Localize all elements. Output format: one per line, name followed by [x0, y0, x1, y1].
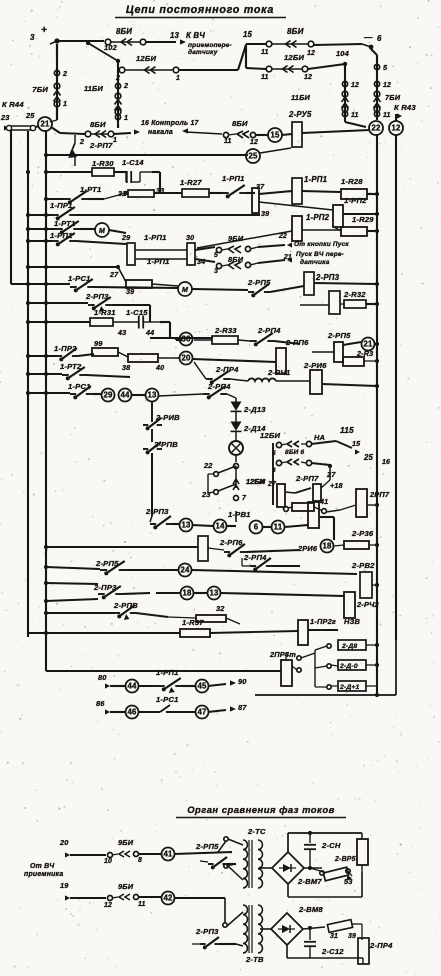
wire — [223, 898, 243, 946]
node 45 circled — [196, 680, 209, 693]
relay coil 2-RP5 right — [312, 331, 351, 362]
wire — [314, 282, 379, 286]
svg-text:8БИ: 8БИ — [228, 255, 244, 264]
switch bar 32 — [168, 615, 240, 624]
fuse 9BI b1 — [104, 838, 142, 865]
wire left bus x46 — [45, 131, 47, 671]
circle 5 on x377 — [374, 64, 388, 72]
resistor slanted 2-VR5 — [310, 856, 356, 881]
svg-text:1-РП2: 1-РП2 — [344, 196, 367, 205]
wire — [160, 322, 170, 338]
contact 1-RP1 low — [50, 231, 126, 246]
terminal 86 — [96, 699, 126, 715]
wire — [109, 230, 126, 233]
svg-text:1: 1 — [176, 75, 180, 82]
fuse 8BI mid — [214, 255, 258, 275]
node 13b circled — [208, 587, 221, 600]
contact 2-RP6 low — [208, 538, 300, 557]
node 32 — [216, 604, 225, 613]
svg-text:13: 13 — [147, 391, 157, 400]
svg-text:2-С12: 2-С12 — [321, 947, 344, 956]
contact 2-RP7 low — [285, 466, 330, 493]
capacitor 1-C14 — [114, 158, 152, 183]
wire — [126, 570, 357, 574]
svg-text:29: 29 — [121, 234, 130, 242]
fuse 12BI vert mid — [233, 464, 266, 503]
svg-text:44: 44 — [145, 329, 154, 337]
svg-text:2-ПР4: 2-ПР4 — [369, 941, 393, 950]
wire bridge1 right — [304, 867, 322, 869]
label 12BI — [260, 431, 280, 440]
terminal bar — [6, 125, 35, 130]
relay coil 2-R32coil — [300, 291, 340, 314]
svg-text:41: 41 — [163, 850, 173, 859]
svg-text:23: 23 — [201, 490, 211, 499]
node 22 circled — [369, 121, 383, 135]
wire vertical x118 — [117, 61, 119, 128]
resistor 2-R33 — [194, 326, 238, 344]
label K R43 — [394, 103, 416, 119]
wire — [156, 593, 344, 596]
wire — [50, 107, 57, 122]
wire bus y241 — [26, 239, 52, 243]
svg-text:39: 39 — [348, 933, 356, 940]
relay coil 2RP6r — [297, 502, 319, 553]
svg-text:25: 25 — [25, 111, 35, 120]
svg-text:2-РЧ2: 2-РЧ2 — [356, 600, 379, 609]
svg-text:1-РП2: 1-РП2 — [306, 213, 330, 222]
svg-text:8БИ: 8БИ — [232, 119, 248, 128]
svg-text:8БИ: 8БИ — [287, 27, 304, 36]
svg-text:2-РП6: 2-РП6 — [219, 538, 243, 547]
svg-text:9БИ: 9БИ — [228, 234, 244, 243]
svg-text:22: 22 — [371, 124, 381, 133]
contact 2-RPV 2 — [143, 440, 178, 522]
node 104 — [336, 49, 349, 66]
wire — [287, 945, 363, 964]
svg-text:25: 25 — [363, 453, 374, 462]
resistor 39 — [118, 267, 178, 296]
svg-text:8БИ: 8БИ — [90, 120, 106, 129]
svg-text:11: 11 — [383, 112, 391, 119]
node 44 circled — [119, 389, 132, 402]
capacitor 1-C15 — [113, 308, 160, 329]
switch bar 29 — [127, 243, 135, 265]
svg-text:5: 5 — [272, 450, 276, 457]
svg-text:2-СН: 2-СН — [321, 841, 341, 850]
svg-text:5: 5 — [383, 64, 388, 72]
svg-text:13: 13 — [181, 521, 191, 530]
relay coil 2RP7 — [356, 489, 390, 517]
svg-text:45: 45 — [197, 682, 207, 691]
wire bus y620 — [44, 611, 114, 615]
svg-text:М: М — [182, 286, 189, 294]
svg-text:18: 18 — [322, 542, 332, 551]
svg-text:87: 87 — [238, 703, 247, 712]
svg-text:2-РЧ1: 2-РЧ1 — [267, 368, 290, 377]
wire — [218, 837, 243, 880]
wire bus y303 — [26, 301, 88, 305]
svg-text:2: 2 — [79, 139, 84, 146]
svg-text:1: 1 — [63, 100, 67, 108]
circle 2 on x57 — [54, 70, 67, 78]
svg-text:2-Д8: 2-Д8 — [341, 643, 357, 650]
wire — [235, 511, 237, 522]
svg-text:13: 13 — [209, 589, 219, 598]
svg-text:11: 11 — [261, 74, 269, 81]
svg-text:12: 12 — [104, 902, 112, 909]
contact 2-RP3 b — [192, 927, 236, 949]
svg-text:7БИ: 7БИ — [32, 85, 48, 94]
wire — [70, 854, 106, 856]
contact 2-RP5 b — [195, 842, 236, 869]
node 29 circled — [102, 389, 115, 402]
svg-text:2-ВМ8: 2-ВМ8 — [298, 905, 323, 914]
svg-text:1-РП1: 1-РП1 — [144, 233, 167, 242]
label 13 K VCh — [170, 31, 232, 56]
inductor 2-RCh1 — [248, 368, 290, 381]
svg-text:18: 18 — [182, 589, 192, 598]
relay coil 1-PR2g — [298, 617, 360, 645]
svg-text:2-R33: 2-R33 — [214, 326, 237, 335]
terminal 15 25 — [336, 440, 390, 466]
wire — [176, 338, 182, 340]
resistor 1-R31 — [90, 308, 116, 326]
svg-text:41: 41 — [319, 498, 328, 506]
wire bus y193 — [154, 192, 182, 194]
contact 1-RT1 upper — [44, 185, 104, 204]
svg-text:2-РП3: 2-РП3 — [315, 273, 340, 282]
fuse row B — [272, 459, 312, 474]
contact 22 — [203, 461, 236, 493]
wire left bus x28 — [27, 131, 29, 637]
svg-text:12: 12 — [351, 82, 359, 89]
transformer 2-TV — [243, 905, 263, 953]
svg-text:К ВЧ: К ВЧ — [186, 31, 205, 40]
wire — [263, 525, 308, 527]
wire — [246, 44, 345, 69]
svg-text:12БИ: 12БИ — [136, 54, 156, 63]
svg-text:1-ПР2г: 1-ПР2г — [310, 617, 336, 626]
switch bar left — [277, 484, 285, 507]
svg-text:1-R37: 1-R37 — [182, 618, 204, 627]
svg-text:44: 44 — [127, 682, 137, 691]
node 18b circled — [181, 587, 194, 600]
wire — [259, 191, 292, 194]
svg-text:приемника: приемника — [24, 871, 63, 878]
wire main row y135 — [51, 127, 85, 134]
svg-text:2-РП4: 2-РП4 — [243, 553, 267, 562]
contact 2-RP4 low — [242, 553, 300, 571]
relay coil small left — [198, 536, 208, 561]
switch box 38-40 — [122, 354, 180, 372]
node 13 circled row — [180, 519, 193, 532]
contact 2-RP5 low — [95, 559, 126, 575]
svg-text:46: 46 — [127, 708, 137, 717]
diode bridge 2-VM7 — [272, 852, 322, 886]
fuse 7BI vertical — [32, 83, 60, 107]
svg-text:12: 12 — [383, 82, 391, 89]
relay box 2-PR4 — [358, 938, 393, 964]
label Ot VCh priemnika — [24, 863, 63, 878]
svg-text:40: 40 — [155, 364, 164, 372]
svg-text:102: 102 — [104, 43, 118, 52]
switch bar 1-RP2 — [259, 196, 367, 227]
svg-text:2-ТВ: 2-ТВ — [245, 955, 264, 964]
svg-text:датчика: датчика — [300, 258, 330, 266]
svg-text:—: — — [363, 32, 373, 42]
terminal 3 + — [30, 25, 60, 44]
contact 2-RPV low — [113, 601, 168, 620]
contact 2-RPV 1 — [143, 401, 180, 442]
wire — [315, 650, 327, 687]
contact 2-PR3 — [93, 583, 150, 599]
node 12 circled — [389, 121, 403, 135]
wire bus y374 — [26, 372, 62, 376]
fuse 8BI row — [79, 120, 117, 146]
terminal 20 — [59, 838, 70, 858]
svg-text:31: 31 — [330, 933, 338, 940]
resistor 1-R30 — [92, 159, 114, 176]
circle 1 on x118 — [115, 114, 128, 122]
contact 2-PR4 upper2 — [194, 362, 248, 384]
svg-text:1-ПР1: 1-ПР1 — [50, 201, 73, 210]
contact 1-PR2 — [54, 344, 94, 361]
svg-text:1-R30: 1-R30 — [92, 159, 114, 168]
node 13 circled — [146, 389, 159, 402]
svg-text:1-РС1: 1-РС1 — [156, 695, 179, 704]
svg-text:приемопере-: приемопере- — [188, 42, 232, 49]
svg-text:1: 1 — [124, 114, 128, 122]
wire — [192, 359, 276, 362]
contact 1-RC1 term — [139, 695, 196, 712]
label K R44 — [2, 100, 24, 109]
contact 1-RT1 lower — [54, 219, 95, 234]
svg-text:11: 11 — [274, 523, 283, 532]
svg-text:7: 7 — [242, 495, 247, 502]
wire right bus x377 — [376, 135, 378, 695]
node 46 circled — [126, 706, 139, 719]
svg-text:11БИ: 11БИ — [84, 84, 103, 93]
wire bus y567 — [44, 565, 100, 569]
svg-text:20: 20 — [181, 354, 191, 363]
wire — [256, 134, 292, 135]
svg-text:12: 12 — [307, 50, 315, 57]
svg-text:90: 90 — [238, 677, 247, 686]
svg-text:датчику: датчику — [188, 48, 218, 56]
svg-text:1-R28: 1-R28 — [341, 177, 363, 186]
svg-text:Цепи постоянного тока: Цепи постоянного тока — [126, 4, 274, 16]
circle 2 on x118 — [115, 82, 128, 90]
svg-text:32: 32 — [216, 604, 225, 613]
fuse 12BI right — [261, 53, 312, 81]
svg-text:22: 22 — [203, 461, 213, 470]
svg-text:1-РП1: 1-РП1 — [156, 668, 179, 677]
svg-text:11: 11 — [224, 138, 232, 145]
svg-text:2ПР4т: 2ПР4т — [269, 650, 296, 659]
terminal 53 — [344, 871, 353, 886]
wire bus y393 — [26, 391, 70, 395]
svg-text:1: 1 — [113, 137, 117, 144]
circle 11 on x377 — [374, 111, 390, 119]
wire — [146, 41, 176, 43]
fuse 12BI left — [115, 54, 180, 82]
svg-text:12БИ: 12БИ — [246, 479, 265, 486]
fuse 9BI mid — [214, 234, 258, 259]
label 115 — [340, 425, 354, 435]
svg-text:21: 21 — [363, 340, 373, 349]
resistor 2-R36 — [334, 529, 379, 549]
node 18 circled — [321, 540, 334, 553]
svg-text:44: 44 — [120, 391, 130, 400]
fuse 8BI top-left — [105, 27, 146, 46]
resistor 1-R29 — [334, 215, 374, 236]
node 33 — [156, 187, 164, 195]
svg-text:1-R27: 1-R27 — [180, 178, 202, 187]
wire col x273 — [272, 443, 274, 505]
wire — [366, 302, 379, 306]
svg-text:2-РП7: 2-РП7 — [295, 474, 319, 483]
resistor bar 31-33 — [104, 190, 154, 199]
svg-text:2-РП4: 2-РП4 — [257, 326, 281, 335]
wire bus y338 — [150, 337, 213, 339]
svg-text:14: 14 — [215, 522, 225, 531]
svg-text:16 Контроль 17: 16 Контроль 17 — [141, 120, 200, 127]
svg-text:От кнопки Пуск: От кнопки Пуск — [294, 241, 349, 248]
svg-text:9БИ: 9БИ — [118, 882, 134, 891]
relay coil 2-RP6 mid — [276, 338, 309, 374]
title text: Цепи постоянного тока — [115, 4, 286, 18]
wire — [192, 525, 236, 526]
wire bus y284 — [11, 282, 70, 286]
node 43 44 — [117, 329, 154, 337]
svg-text:2РИ6: 2РИ6 — [297, 544, 318, 553]
svg-text:12: 12 — [391, 124, 401, 133]
svg-text:22: 22 — [278, 233, 287, 240]
wire — [308, 629, 338, 631]
wire — [235, 432, 237, 441]
label NA — [314, 433, 325, 442]
svg-text:8: 8 — [138, 857, 142, 864]
svg-text:2-РУ5: 2-РУ5 — [288, 110, 312, 119]
svg-text:+: + — [41, 25, 47, 36]
wire — [319, 517, 334, 540]
node 37 — [256, 183, 265, 191]
label 15 — [243, 30, 253, 39]
svg-text:1-С14: 1-С14 — [122, 158, 144, 167]
contact 2-RP5 mid — [247, 278, 304, 297]
lamp circle — [229, 441, 243, 455]
wire — [260, 867, 272, 869]
wire — [302, 191, 340, 192]
wire bus y637 — [28, 631, 48, 635]
wire — [352, 924, 362, 940]
svg-text:2-ТС: 2-ТС — [247, 827, 266, 836]
label Ot knopki Pusk — [278, 233, 350, 266]
wire right bus x396 — [395, 135, 397, 640]
svg-text:43: 43 — [117, 329, 126, 337]
stack box 2-D+1 — [327, 681, 377, 691]
resistor slanted 31-39 — [327, 920, 356, 940]
svg-text:1-С15: 1-С15 — [126, 308, 148, 317]
diode 2-D14 — [231, 422, 267, 434]
transformer 2-TC label — [247, 827, 266, 836]
node 15 circled — [268, 128, 282, 142]
contact 23 — [201, 484, 236, 499]
wire bus y215 — [26, 213, 52, 217]
svg-text:2-R32: 2-R32 — [343, 290, 366, 299]
svg-text:2-РП3: 2-РП3 — [145, 507, 169, 516]
wire — [259, 867, 262, 870]
wire — [70, 897, 106, 899]
terminal 87 — [208, 703, 247, 712]
svg-text:1-R29: 1-R29 — [352, 215, 374, 224]
wire — [246, 44, 362, 45]
svg-text:2-Д-0: 2-Д-0 — [339, 663, 358, 670]
wire vertical x345 — [345, 64, 366, 127]
svg-text:12: 12 — [250, 139, 258, 146]
motor M circle 2 — [178, 282, 192, 296]
resistor 1-R27 — [180, 178, 209, 197]
svg-text:36: 36 — [181, 335, 191, 344]
svg-text:20: 20 — [59, 838, 69, 847]
svg-text:39: 39 — [261, 210, 269, 218]
wire — [235, 412, 237, 422]
svg-text:25: 25 — [248, 152, 258, 161]
svg-text:12БИ: 12БИ — [260, 431, 280, 440]
wire — [56, 44, 58, 60]
svg-text:2-РП3: 2-РП3 — [195, 927, 219, 936]
svg-text:1-РВ1: 1-РВ1 — [228, 510, 251, 519]
node 61 circled — [250, 521, 263, 534]
svg-text:2-РВ2: 2-РВ2 — [351, 561, 375, 570]
transformer 2-TV label — [245, 955, 264, 964]
contact 2-RP4 upper — [238, 326, 300, 346]
label 1-RP1 between — [144, 233, 170, 266]
wire — [326, 505, 356, 512]
fuse row A — [272, 441, 312, 457]
svg-text:1-РП1: 1-РП1 — [222, 174, 245, 183]
title 2: Organ sravneniya faz tokov — [176, 804, 346, 818]
relay coil 1-RP2 — [197, 213, 341, 248]
node 42 circled — [162, 892, 175, 905]
wire vertical left x57 — [56, 44, 58, 118]
node 14 circled row — [214, 520, 227, 533]
wire bus y601 — [44, 599, 98, 603]
svg-text:27: 27 — [267, 481, 277, 488]
circle 12 on x345 — [342, 81, 359, 89]
capacitor 2-C12 — [304, 926, 344, 958]
contact 2-RP7 — [68, 135, 113, 166]
wire — [138, 897, 225, 898]
svg-text:47: 47 — [197, 708, 207, 717]
svg-text:М: М — [99, 227, 106, 235]
svg-text:104: 104 — [336, 49, 349, 58]
node junction — [308, 831, 312, 870]
svg-text:2-РП5: 2-РП5 — [327, 331, 351, 340]
resistor 2-R35 — [343, 350, 379, 366]
wire — [235, 466, 237, 488]
node 41 — [314, 498, 328, 513]
svg-text:2-Д+1: 2-Д+1 — [339, 684, 360, 691]
node 31 — [118, 190, 126, 198]
svg-text:9БИ: 9БИ — [118, 838, 134, 847]
svg-text:80: 80 — [98, 673, 107, 682]
svg-text:16: 16 — [382, 459, 390, 466]
wire vertical x377 top — [371, 49, 377, 120]
node 25 circled — [246, 148, 291, 163]
relay coil 2-RU6 — [276, 361, 327, 394]
